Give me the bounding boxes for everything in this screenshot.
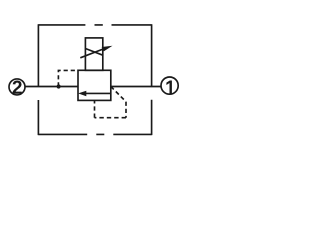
port label 1	[166, 80, 172, 93]
port label 2	[13, 81, 22, 94]
wire valve body to port1	[111, 86, 161, 88]
port 2 circle	[9, 79, 25, 95]
pilot line dashed up to body bottom	[94, 100, 96, 117]
valve body square	[78, 70, 111, 100]
wire port2 to valve body	[25, 86, 78, 88]
spring/adjust box on top	[85, 38, 102, 70]
pilot line dashed: node to spring chamber	[58, 70, 78, 86]
envelope right edge (long-dash)	[151, 24, 153, 135]
envelope bottom edge (long-dash)	[38, 133, 151, 135]
envelope left edge (long-dash)	[37, 24, 39, 135]
flow arrowhead (points left)	[78, 91, 86, 96]
pilot line dashed vertical right	[125, 102, 127, 118]
pilot line dashed bottom horizontal	[95, 117, 127, 119]
envelope top edge (long-dash)	[38, 24, 151, 26]
adjustment arrowhead	[102, 46, 113, 52]
junction dot on port2 line	[57, 84, 61, 88]
adjustment arrow shaft	[80, 48, 106, 58]
pilot line dashed diagonal from port1 side	[111, 87, 126, 102]
flow path line inside body	[85, 92, 111, 94]
spring diagonal inside box	[85, 49, 102, 56]
port 1 circle	[161, 77, 178, 94]
